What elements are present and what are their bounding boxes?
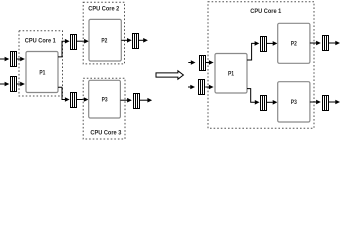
queue Qin1 (left input top) [11,52,17,67]
arrowhead Rin2 to P1 [209,85,214,90]
wire into Qin2 [0,83,5,85]
wire P2 to Rout2 [310,42,317,44]
wire P1 to Qmt (elbow up) [58,41,65,57]
wire Rmt to P2 [267,42,273,44]
big transform arrow [156,71,183,79]
arrowhead into Qin2 [5,82,10,87]
wire Rin2 to P1 [205,86,209,88]
process P1 (left) [26,52,58,93]
arrowhead Rmb to P3 [273,100,278,105]
svg-text:P3: P3 [291,99,297,106]
arrowhead Qout2 out [143,38,148,43]
svg-text:P1: P1 [39,69,45,76]
arrowhead into Rin2 [190,85,195,90]
wire P1 to Rmt (elbow up) [247,43,255,60]
queue Rmb (P1 to P3) [261,96,267,111]
wire Qin1 to P1 [17,58,21,60]
arrowhead into Rout2 [316,41,321,46]
wire into Qin1 [0,58,5,60]
queue Rout3 [323,96,329,111]
arrowhead into Qmt [65,39,70,44]
queue Rmt (P1 to P2) [261,37,267,52]
wire Qin2 to P1 [17,83,21,85]
svg-text:CPU Core 2: CPU Core 2 [88,6,119,13]
wire Rmb to P3 [267,101,273,103]
arrowhead into Qout2 [127,38,132,43]
arrowhead Qmt to P2 [84,39,89,44]
arrowhead into Rout3 [316,100,321,105]
wire P1 to Qmb (elbow down) [58,87,65,99]
wire Rin1 to P1 [206,62,209,64]
arrowhead into Qout3 [127,98,132,103]
right CPU Core 1 dashed box [208,2,314,128]
process P2 (right) [278,23,310,63]
arrowhead into Qmb [65,97,70,102]
wire into Rin1 [188,62,191,64]
wire Qmt to P2 [77,40,85,42]
arrowhead Rmt to P2 [273,41,278,46]
process P3 (right) [278,82,310,122]
wire P2 to Qout2 [121,39,127,41]
svg-text:P1: P1 [228,71,234,78]
CPU Core 2 dashed box [83,2,124,64]
svg-text:CPU Core 1: CPU Core 1 [25,37,56,44]
left CPU Core 1 dashed box [19,31,63,96]
queue Qmb (P1 to Core3) [71,93,77,108]
queue Qout3 [134,94,140,109]
wire Qmb to P3 [77,99,84,101]
process P3 (left) [89,80,121,118]
CPU Core 3 dashed box [83,78,125,139]
queue Rout2 [323,36,329,51]
svg-text:CPU Core 3: CPU Core 3 [90,129,121,136]
queue Qmt (P1 to Core2) [71,35,77,50]
svg-text:P3: P3 [102,97,108,104]
wire P3 to Qout3 [120,99,127,101]
arrowhead Rout3 out [335,100,340,105]
svg-text:CPU Core 1: CPU Core 1 [250,8,281,15]
arrowhead into Rmt [255,41,260,46]
wire Rout3 out [328,101,335,103]
process P1 (right) [215,54,247,94]
arrowhead Qin1 to P1 [20,57,25,62]
queue Rin2 (right input bottom) [199,80,205,95]
arrowhead Qout3 out [147,98,152,103]
queue Qin2 (left input bottom) [11,77,17,92]
wire Qout2 out [139,39,143,41]
process P2 (left) [89,19,121,61]
arrowhead Qmb to P3 [84,97,89,102]
arrowhead Qin2 to P1 [20,82,25,87]
arrowhead Rin1 to P1 [209,60,214,65]
arrowhead into Rmb [255,100,260,105]
queue Rin1 (right input top) [200,56,206,71]
wire into Rin2 [188,86,191,88]
wire P1 to Rmb (elbow down) [247,89,255,103]
svg-text:P2: P2 [291,41,297,48]
wire P3 to Rout3 [310,101,317,103]
arrowhead into Qin1 [5,57,10,62]
wire Rout2 out [328,42,335,44]
arrowhead Rout2 out [335,41,340,46]
queue Qout2 [133,34,139,49]
wire Qout3 out [140,99,148,101]
svg-text:P2: P2 [101,38,107,45]
arrowhead into Rin1 [191,60,196,65]
